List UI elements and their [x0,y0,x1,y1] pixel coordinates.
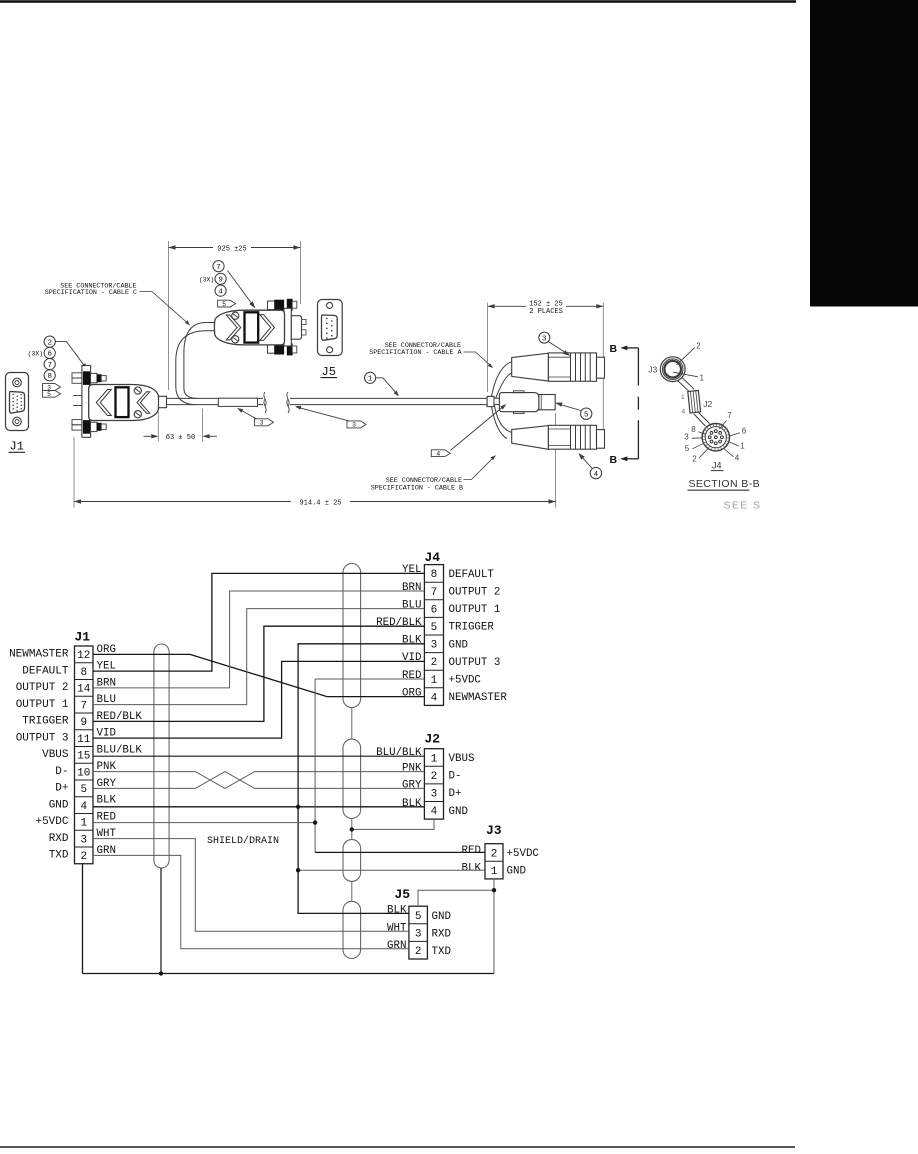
connector A inner line bottom [548,376,570,378]
underline SECTION B-B [688,489,750,491]
svg-text:B: B [610,343,618,355]
shield oval at J5 wires [343,901,361,958]
wire RED to J3.2 [315,851,485,853]
node BLK at J1.4 wire [296,805,300,809]
svg-text:14: 14 [77,684,91,696]
svg-text:NEWMASTER: NEWMASTER [449,692,508,704]
arrowhead at sleeve [237,408,243,413]
J1 plate mid line b [73,405,82,407]
svg-text:OUTPUT 1: OUTPUT 1 [449,604,501,616]
wire J3 tail down [493,879,495,890]
section detail J3 ring outer [660,357,685,382]
J1 thumbscrew bottom [84,421,90,434]
shield oval at J4 wires [343,564,361,708]
cable C outer edge [176,331,215,405]
connector B inner line bottom [548,445,570,447]
svg-text:TXD: TXD [49,850,69,862]
balloon item 1 cable [365,372,376,383]
svg-text:DEFAULT: DEFAULT [22,665,69,677]
dim 63 right arrow line [204,435,217,437]
balloon item 9 upper [215,273,226,284]
arrowhead flag 4 [500,404,506,409]
svg-text:5: 5 [685,444,690,453]
svg-text:BLK: BLK [462,863,482,875]
svg-text:GND: GND [449,639,468,651]
dim line 152 left part [488,305,526,307]
svg-text:2: 2 [491,848,498,860]
svg-text:4: 4 [431,692,438,704]
node BLK branch to J3.1 [296,868,300,872]
svg-text:8: 8 [691,425,696,434]
svg-text:2: 2 [431,657,438,669]
J1 backshell boss screw top [134,387,141,394]
dim line 914.4 left part [74,501,291,503]
connector J1 body (schematic) [75,646,94,864]
J1 face stub bottom a [72,420,82,425]
svg-text:5: 5 [415,911,422,923]
svg-text:BLK: BLK [97,795,117,807]
svg-text:4: 4 [735,454,740,463]
wire BLK riser J4.3 to J5.5 [298,644,424,914]
cable breakout node [487,396,494,406]
svg-text:4: 4 [682,409,686,416]
flag note 4 [431,450,450,458]
svg-text:SEE S: SEE S [724,500,762,512]
underline J4 section [711,470,724,472]
svg-text:VBUS: VBUS [42,749,69,761]
svg-text:6: 6 [47,351,52,359]
connector J2 metal shell [539,395,555,410]
wire RED riser [314,679,316,852]
shield link J2-J3 ovals [351,819,353,840]
svg-text:J1: J1 [75,630,91,645]
section detail J3 ring mid [662,359,683,380]
cable ident sleeve [218,398,257,406]
main cable bottom edge segment 2 [290,404,488,406]
svg-text:1: 1 [80,818,87,830]
J2 body ridge top [514,391,525,393]
svg-text:2 PLACES: 2 PLACES [529,308,563,316]
svg-text:J4: J4 [712,460,722,470]
svg-text:TRIGGER: TRIGGER [22,716,69,728]
svg-text:SPECIFICATION - CABLE B: SPECIFICATION - CABLE B [371,484,463,492]
main cable top edge segment 1 [167,397,264,399]
svg-text:RED/BLK: RED/BLK [376,617,422,629]
cable break squiggle left [264,392,266,413]
wire RED J1.1 horizontal [93,822,315,824]
upper backshell thumbscrew bottom [268,345,275,354]
svg-text:B: B [610,454,618,466]
svg-text:NEWMASTER: NEWMASTER [9,649,69,661]
connector A strain boot [512,353,549,381]
J5 D-sub face [322,315,338,340]
upper backshell chevron small [226,315,241,340]
svg-text:GRN: GRN [387,940,406,952]
svg-text:5: 5 [222,301,226,308]
svg-text:BLK: BLK [387,904,407,916]
dim line 925 right part [251,247,300,249]
svg-text:914.4 ± 25: 914.4 ± 25 [299,499,341,507]
svg-text:11: 11 [77,734,91,746]
arrowhead at cable [295,406,301,410]
upper backshell flange plate [284,308,291,346]
leader pin 8 at J4 section [699,432,705,435]
svg-text:7: 7 [80,700,87,712]
shield oval at J3 wires [343,840,361,882]
wire GRN J1.2 to J5.2 [93,855,409,948]
svg-text:3: 3 [415,928,422,940]
svg-text:1: 1 [740,442,745,451]
svg-text:9: 9 [218,277,223,285]
J2 shell inner line [540,395,542,410]
svg-text:YEL: YEL [402,564,421,576]
svg-text:RED: RED [402,670,421,682]
leader 2 to J3 ring [677,348,695,365]
svg-text:OUTPUT 3: OUTPUT 3 [449,657,501,669]
connector J2 molded body [499,393,539,412]
svg-text:BLU/BLK: BLU/BLK [376,747,422,759]
shield link J3-J5 ovals [351,881,353,901]
balloon item 3 (connector A) [539,332,550,343]
branch B cable lower edge [492,407,508,439]
upper backshell boss screw top [232,312,239,319]
svg-text:4: 4 [594,471,599,479]
arrowhead on J1 backshell screw [82,363,88,370]
svg-text:8: 8 [431,569,438,581]
wire shield drain J1 oval to bus [160,868,162,974]
svg-text:2: 2 [431,771,438,783]
section detail J3 ring inner [664,361,681,378]
flag note 3 [43,384,61,392]
leader pin 5 at J4 section [692,444,703,449]
leader flag 4 to connector J2 [450,405,505,450]
svg-text:BLK: BLK [402,798,422,810]
arrowhead connector B [578,453,584,460]
balloon item 8 [44,370,55,381]
ext line right of dim 925 [299,241,301,304]
wire RED to J4.1 [315,678,424,680]
J1 mounting hole bottom [13,417,22,426]
svg-text:4: 4 [431,806,438,818]
svg-text:2: 2 [692,455,697,464]
svg-text:3: 3 [260,420,264,427]
arrowhead on upper backshell [249,301,255,308]
main cable top edge segment 2 [290,397,488,399]
wire PNK J1.10 to J2.2 (twisted pair) [93,772,424,789]
leader balloon 4 to connector B [580,454,593,468]
svg-text:GND: GND [49,799,69,811]
upper backshell chevron large [260,315,275,341]
dim 63 arrow right [203,434,210,438]
svg-text:925 ±25: 925 ±25 [217,245,246,253]
J1 face stub bottom b [72,425,82,430]
connector B strain boot [512,426,549,450]
ext line right of dim 914.4 [555,413,557,508]
svg-text:7: 7 [47,362,52,370]
svg-text:RXD: RXD [432,928,451,940]
upper backshell molded body [214,310,284,345]
dim 63 left arrow line [144,435,158,437]
J1 backshell chevron right [137,392,150,413]
balloon item 6 [44,347,55,358]
dim 925 arrow left [169,245,176,249]
svg-text:4: 4 [80,801,87,813]
wire VID J1.11 to J4.2 [93,661,424,738]
svg-text:8: 8 [47,373,52,381]
J1 backshell center band [116,387,129,417]
svg-text:6: 6 [431,604,438,616]
svg-text:15: 15 [77,751,90,763]
connector J3 body (schematic) [485,844,503,879]
dim 914.4 arrow right [549,499,556,503]
svg-text:J1: J1 [10,440,24,454]
svg-text:J3: J3 [486,823,502,838]
svg-text:5: 5 [80,784,87,796]
svg-text:(3X): (3X) [28,351,43,358]
svg-text:3: 3 [352,422,356,429]
svg-text:4: 4 [218,288,223,296]
svg-text:7: 7 [431,587,438,599]
link J2 to J4 right line [699,413,710,424]
svg-text:BLU: BLU [402,599,421,611]
section line top segment [637,348,639,386]
dim 152 arrow left [488,304,495,308]
flag note 5 [43,390,61,398]
shield oval at J2 wires [343,739,361,818]
svg-text:VID: VID [402,652,421,664]
svg-text:GND: GND [507,866,526,878]
svg-text:+5VDC: +5VDC [449,675,482,687]
connector J2 neck [494,398,499,404]
J1 backshell boss screw bottom [134,411,141,418]
upper DB9 stub b [302,330,307,335]
dim line 925 left part [169,247,214,249]
svg-text:D+: D+ [449,788,462,800]
svg-text:GND: GND [432,911,451,923]
connector A barrel [548,353,596,381]
svg-text:2: 2 [47,339,52,347]
ext line left of dim 925 [168,241,170,390]
svg-text:2: 2 [80,851,87,863]
arrowhead note C [185,320,190,325]
J5 mounting hole bottom [327,347,333,353]
link J3 to J2 right line [682,377,694,389]
node RED at J1.1 wire [313,820,317,824]
wire ORG J1.12 to J4.4 (diagonal) [93,654,424,696]
ext line left of dim 63 [157,410,159,442]
connector B inner line top [548,428,570,430]
svg-text:+5VDC: +5VDC [507,848,540,860]
svg-text:63 ± 50: 63 ± 50 [166,434,195,442]
connector B knurl grooves [570,425,572,449]
J5 mounting hole top [327,302,333,308]
upper backshell thumbscrew top [268,301,275,310]
svg-text:TRIGGER: TRIGGER [449,622,495,634]
connector J1 DB15 front shell [6,373,29,431]
dim 925 arrow right [293,245,300,249]
connector J4 body (schematic) [424,565,443,706]
svg-text:1: 1 [431,753,438,765]
svg-text:(3X): (3X) [199,276,214,283]
connector A inner line top [548,356,570,358]
flag note 5 upper [218,300,236,308]
leader pin 6 at J4 section [730,433,740,436]
J1 backshell chevron left [96,390,111,416]
svg-text:2: 2 [696,341,701,350]
svg-text:GRY: GRY [402,779,422,791]
wire BLU J1.7 to J4.6 [93,609,424,705]
connector B barrel [548,425,596,449]
branch B cable upper edge [494,403,512,432]
section line bottom segment [637,420,639,459]
svg-text:J2: J2 [425,732,441,747]
flag note 3 at sleeve [255,419,274,427]
arrowhead connector J2 [555,403,562,407]
svg-text:3: 3 [684,433,689,442]
wire J2 shield tail to drain [352,819,434,829]
svg-text:1: 1 [700,373,705,382]
connector A knurl grooves [570,353,572,381]
leader pin 1 at J4 section [729,442,739,446]
dim 152 arrow right [596,304,603,308]
svg-text:OUTPUT 2: OUTPUT 2 [16,682,69,694]
svg-text:5: 5 [431,622,438,634]
balloon item 2 [44,336,55,347]
leader pin 3 at J4 section [692,437,702,440]
J1 backshell flange plate [82,366,91,438]
section line middle dash [637,397,639,410]
leader balloon 5 to connector J2 [557,404,581,411]
svg-text:WHT: WHT [387,922,407,934]
arrowhead connector A [563,350,570,356]
svg-text:3: 3 [431,640,438,652]
svg-text:TXD: TXD [432,946,451,958]
svg-text:D-: D- [449,771,462,783]
leader flag 3 to sleeve [238,409,256,419]
dim 914.4 arrow left [74,499,81,503]
leader flag 3 to cable [296,407,349,421]
wire WHT J1.3 to J5.3 [93,839,409,932]
ext line right of dim 152 [602,303,604,430]
balloon item 5 (connector J2) [581,408,592,419]
svg-text:D-: D- [55,766,68,778]
branch A cable upper edge [492,362,512,397]
balloon item 4 upper [215,285,226,296]
connector J5 body (schematic) [409,906,428,959]
shield oval cable at J1 [154,644,169,868]
J1 backshell molded body [89,385,159,421]
svg-text:1: 1 [368,376,373,384]
svg-text:3: 3 [431,789,438,801]
svg-text:9: 9 [80,717,87,729]
svg-text:5: 5 [584,411,589,419]
balloon item 4 (connector B) [590,467,601,478]
shield link J4-J2 ovals [351,708,353,740]
svg-text:RXD: RXD [49,833,69,845]
svg-text:VBUS: VBUS [449,753,475,765]
ext line right of dim 63 [202,409,204,442]
J1 D-sub face [10,392,25,414]
svg-text:BRN: BRN [402,582,421,594]
wire BLU/BLK J1.15 to J2.1 [93,755,424,757]
svg-text:DEFAULT: DEFAULT [449,569,495,581]
wire BLK J1.4 to J2.4 [93,806,424,808]
svg-text:SPECIFICATION - CABLE C: SPECIFICATION - CABLE C [45,289,137,297]
link J3 to J2 left line [678,380,690,391]
J1 cable exit boot [159,396,167,407]
wire BLK branch to J3.1 [298,869,485,871]
svg-text:7: 7 [727,411,732,420]
arrowhead note A [488,363,493,368]
svg-text:ORG: ORG [402,687,421,699]
arrowhead note B [491,455,496,460]
connector B end cap [597,430,605,449]
svg-text:8: 8 [80,667,87,679]
svg-text:12: 12 [77,650,90,662]
section arrow bottom [620,456,627,461]
svg-text:7: 7 [216,264,221,272]
J1 face stub top a [72,373,82,378]
arrowhead on main cable [394,391,399,397]
dim line 914.4 right part [350,501,556,503]
connector J2 body (schematic) [424,749,443,819]
link J2 to J4 left line [694,414,705,426]
J1 pin dots (15) [12,394,22,412]
svg-text:+5VDC: +5VDC [35,816,68,828]
upper backshell boss screw bottom [232,336,239,343]
upper DB9 shroud side [291,316,301,340]
section detail J4 knurl ticks [702,424,729,451]
upper backshell center band [245,312,259,342]
page bottom rule [0,1146,795,1148]
node J3/J5 shield junction [492,888,496,892]
leader note A to branch A [464,352,493,367]
node drain at ground bus [159,971,163,975]
leader from balloon 7 to upper backshell [228,271,255,307]
wire YEL J1.8 to J4.8 [93,573,424,671]
upper DB9 stub a [302,319,307,324]
svg-text:OUTPUT 2: OUTPUT 2 [449,587,501,599]
main cable bottom edge segment 1 [167,404,264,406]
leader balloon 3 to connector A [548,342,569,355]
dim line 152 right part [566,305,603,307]
section detail J4 inner ring [705,427,726,448]
svg-text:OUTPUT 1: OUTPUT 1 [16,699,69,711]
svg-text:6: 6 [742,427,747,436]
wire BRN J1.14 to J4.7 [93,591,424,688]
wire J1 tail to ground bus [82,864,84,974]
svg-text:GND: GND [449,806,468,818]
svg-text:10: 10 [77,767,90,779]
leader pin 4 at J4 section [724,449,734,457]
balloon item 7 upper [213,261,224,272]
svg-text:J5: J5 [395,887,411,902]
leader 1 to J3 ring [674,372,698,377]
svg-text:3: 3 [542,335,547,343]
svg-text:RED: RED [97,811,116,823]
svg-text:2: 2 [415,946,422,958]
svg-text:5: 5 [47,391,51,398]
section arrow top [620,346,627,351]
svg-text:D+: D+ [55,783,68,795]
svg-text:SPECIFICATION - CABLE A: SPECIFICATION - CABLE A [369,349,462,357]
ext line left of dim 152 [487,303,489,392]
svg-text:1: 1 [431,675,438,687]
node J2 shield tail at drain [350,827,354,831]
leader pin 2 at J4 section [699,449,708,458]
svg-text:4: 4 [436,451,440,458]
J5 pin dots (9) [326,318,333,339]
